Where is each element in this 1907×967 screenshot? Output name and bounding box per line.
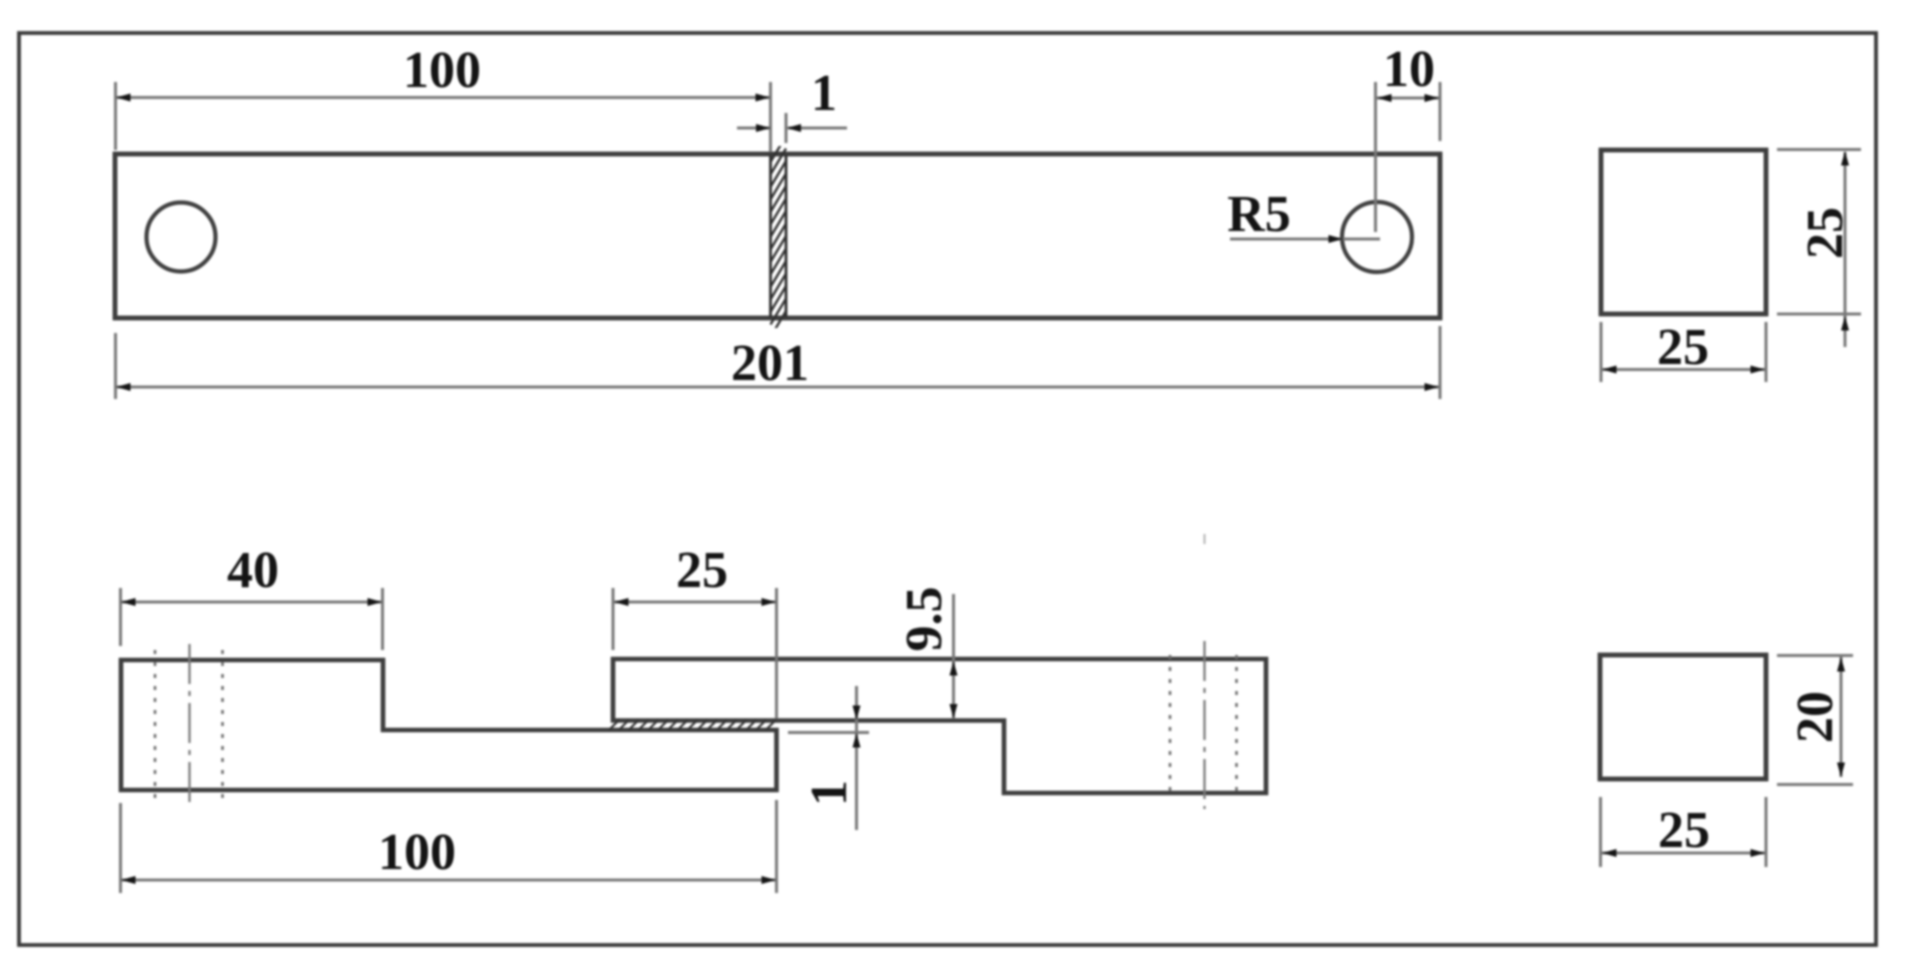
end view square 25x25 [1601, 150, 1766, 314]
dimension 100 (bottom) [119, 803, 122, 893]
dimension 40 [119, 588, 122, 646]
dimension 25 vertical (right of square) [1777, 148, 1861, 151]
right plate of lap joint [613, 659, 1266, 793]
dimension 9.5 (plate thickness) [952, 594, 955, 718]
adhesive slit joint lines in bar [769, 155, 772, 317]
svg-text:R5: R5 [1227, 186, 1291, 243]
svg-text:25: 25 [1797, 207, 1854, 259]
svg-text:1: 1 [811, 65, 837, 122]
dimension 1 (adhesive thickness) [855, 686, 858, 830]
dimension 25 horizontal (bottom square) [1599, 797, 1602, 867]
dimension 25 (overlap length) [612, 588, 615, 650]
adhesive layer hatching (overlap) [609, 720, 776, 730]
centerlines right plate [1170, 655, 1237, 795]
svg-text:25: 25 [1658, 802, 1710, 859]
svg-text:10: 10 [1383, 41, 1435, 98]
dimension 201 (overall length) [114, 333, 117, 399]
dimension 20 vertical [1777, 654, 1853, 657]
svg-text:25: 25 [676, 542, 728, 599]
R5 leader [1230, 238, 1341, 241]
dimension 10 (hole offset) [1374, 82, 1377, 232]
svg-text:25: 25 [1657, 319, 1709, 376]
dimension 25 horizontal (below square) [1600, 322, 1603, 382]
svg-text:100: 100 [378, 824, 456, 881]
top bar plate outline [115, 154, 1440, 318]
svg-text:20: 20 [1787, 691, 1844, 743]
svg-text:100: 100 [403, 42, 481, 99]
end view rectangle 25x20 [1600, 655, 1766, 779]
right hole R5 [1342, 202, 1412, 272]
dimension 100 (top) [114, 82, 117, 150]
centerlines left plate [155, 650, 223, 798]
svg-text:40: 40 [227, 542, 279, 599]
left plate of lap joint [121, 660, 777, 790]
svg-text:9.5: 9.5 [896, 587, 953, 652]
svg-text:201: 201 [731, 335, 809, 392]
dimension 1 (slit width) [785, 113, 788, 143]
svg-text:1: 1 [801, 780, 858, 806]
left hole [147, 203, 216, 272]
